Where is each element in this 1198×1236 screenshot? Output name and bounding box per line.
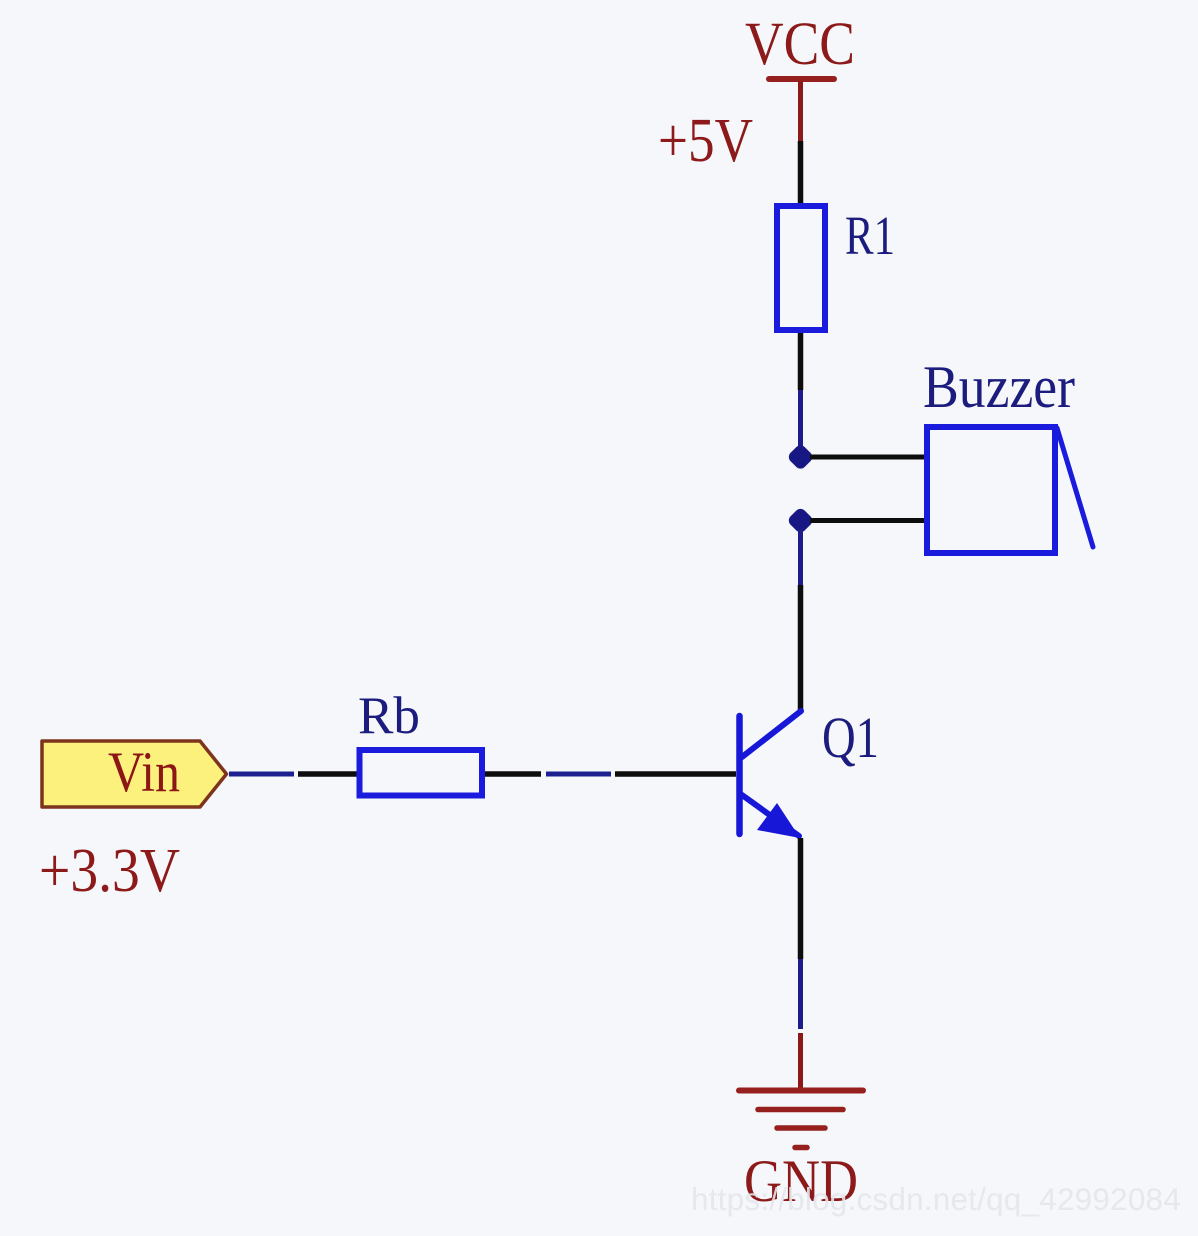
- svg-text:Rb: Rb: [358, 687, 420, 745]
- wire Rb to Q1 base: [485, 771, 736, 777]
- resistor Rb: [360, 750, 483, 796]
- wire node B to buzzer pin 2: [810, 518, 927, 523]
- power symbol VCC bar: [769, 79, 834, 141]
- resistor R1: [777, 206, 825, 330]
- svg-text:https://blog.csdn.net/qq_42992: https://blog.csdn.net/qq_42992084: [691, 1181, 1181, 1217]
- buzzer body: [927, 427, 1055, 553]
- wire R1 to node A: [798, 333, 804, 449]
- svg-text:+5V: +5V: [658, 107, 753, 175]
- node B junction dot: [786, 506, 814, 534]
- svg-text:R1: R1: [845, 205, 895, 266]
- node A junction dot: [786, 443, 814, 471]
- wire VCC to R1: [798, 141, 804, 206]
- wire Vin to Rb: [229, 772, 358, 777]
- wire node A to buzzer pin 1: [810, 455, 927, 460]
- transistor Q1: [740, 711, 802, 838]
- buzzer actuator stroke: [1057, 428, 1093, 547]
- ground symbol GND: [739, 1091, 863, 1148]
- svg-text:Q1: Q1: [822, 705, 879, 770]
- port Vin flag: [42, 741, 227, 807]
- wire node B to Q1 collector: [798, 529, 803, 712]
- svg-text:VCC: VCC: [745, 11, 855, 78]
- svg-text:Vin: Vin: [108, 741, 180, 804]
- svg-text:Buzzer: Buzzer: [923, 354, 1075, 420]
- wire Q1 emitter to ground: [798, 838, 804, 1090]
- svg-text:+3.3V: +3.3V: [39, 837, 180, 905]
